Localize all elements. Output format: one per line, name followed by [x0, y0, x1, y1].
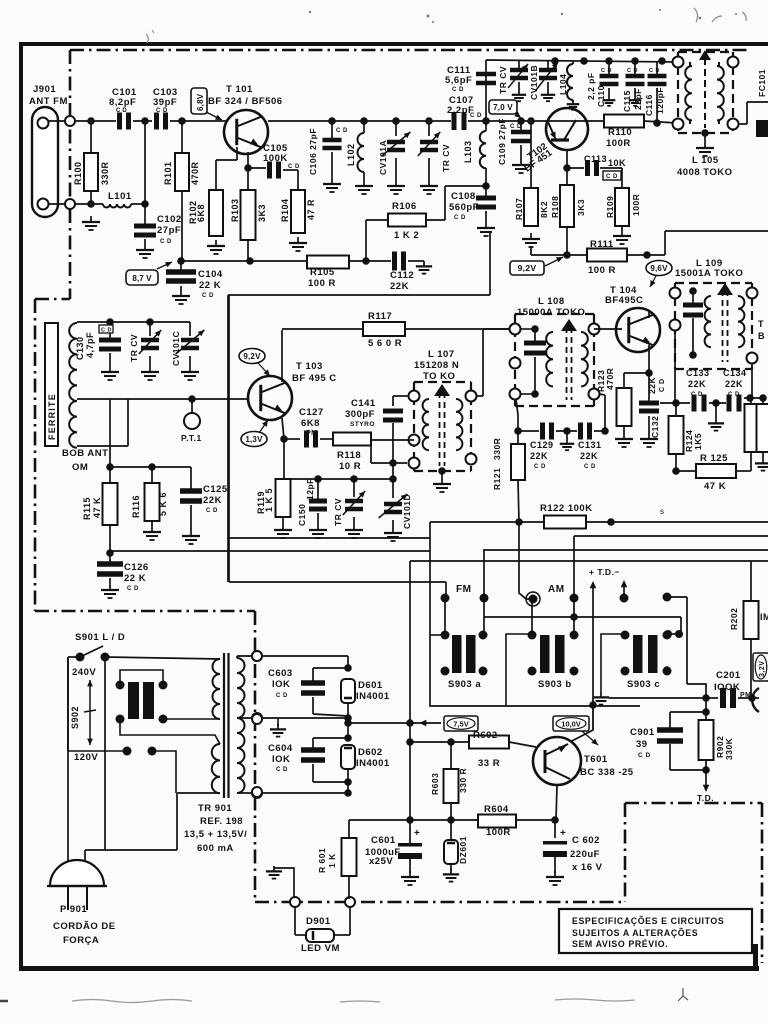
svg-text:DZ601: DZ601 — [458, 836, 468, 864]
svg-text:R 125: R 125 — [700, 453, 728, 464]
svg-text:220uF: 220uF — [570, 849, 600, 860]
svg-text:R115: R115 — [82, 497, 92, 520]
svg-text:9,2V: 9,2V — [518, 263, 537, 273]
svg-text:T: T — [758, 319, 764, 329]
svg-text:10,0V: 10,0V — [561, 720, 581, 729]
svg-text:C D: C D — [638, 752, 651, 759]
svg-text:100R: 100R — [486, 827, 511, 838]
svg-text:C106 27pF: C106 27pF — [308, 128, 318, 175]
svg-text:100R: 100R — [606, 138, 631, 149]
svg-text:C603: C603 — [268, 668, 293, 679]
svg-text:S903 a: S903 a — [448, 679, 481, 690]
svg-text:PM: PM — [740, 692, 752, 699]
svg-text:C150: C150 — [297, 504, 307, 526]
svg-text:s: s — [660, 507, 664, 516]
svg-text:C D: C D — [101, 328, 112, 334]
svg-text:C141: C141 — [351, 398, 376, 409]
svg-text:600 mA: 600 mA — [197, 843, 234, 854]
svg-text:13,5 + 13,5V/: 13,5 + 13,5V/ — [184, 829, 247, 840]
svg-text:1 K 5: 1 K 5 — [264, 488, 274, 512]
svg-text:IN4001: IN4001 — [356, 691, 390, 702]
svg-text:C201: C201 — [716, 670, 741, 681]
svg-text:TR CV: TR CV — [333, 498, 343, 526]
svg-text:22K: 22K — [530, 451, 548, 461]
svg-text:PM: PM — [306, 430, 318, 437]
svg-text:IOK: IOK — [272, 754, 290, 765]
svg-text:C113: C113 — [584, 154, 607, 164]
svg-text:x 16 V: x 16 V — [572, 862, 603, 873]
svg-text:C D: C D — [160, 239, 172, 245]
svg-text:x25V: x25V — [369, 856, 393, 867]
svg-text:IOOK: IOOK — [714, 682, 740, 693]
svg-text:R109: R109 — [605, 196, 615, 218]
svg-text:C D: C D — [534, 464, 546, 470]
svg-text:CV101B: CV101B — [529, 65, 539, 100]
svg-text:240V: 240V — [72, 667, 96, 678]
svg-text:8,7 V: 8,7 V — [132, 274, 152, 283]
svg-text:39: 39 — [636, 739, 648, 750]
svg-text:D602: D602 — [358, 747, 383, 758]
svg-text:C126: C126 — [124, 562, 149, 573]
svg-text:5 K 6: 5 K 6 — [158, 492, 168, 516]
svg-text:D901: D901 — [306, 916, 331, 927]
svg-text:C112: C112 — [390, 270, 414, 281]
svg-text:ESPECIFICAÇÕES E CIRCUITOS: ESPECIFICAÇÕES E CIRCUITOS — [572, 916, 724, 926]
svg-text:10 R: 10 R — [339, 461, 361, 472]
svg-text:BF 324 / BF506: BF 324 / BF506 — [208, 96, 283, 107]
svg-text:C D: C D — [728, 392, 740, 398]
svg-text:C115: C115 — [622, 90, 632, 112]
svg-text:3K3: 3K3 — [576, 199, 586, 216]
svg-text:P.T.1: P.T.1 — [181, 433, 202, 443]
svg-text:C127: C127 — [299, 407, 324, 418]
svg-text:9,2V: 9,2V — [243, 352, 261, 361]
svg-text:L 108: L 108 — [538, 296, 565, 307]
svg-text:R110: R110 — [608, 127, 632, 138]
svg-text:300pF: 300pF — [345, 409, 375, 420]
svg-text:1 K 2: 1 K 2 — [394, 230, 419, 241]
svg-text:R117: R117 — [368, 311, 392, 322]
svg-text:R101: R101 — [163, 161, 173, 185]
svg-text:10K: 10K — [608, 158, 626, 168]
svg-text:AM: AM — [548, 584, 565, 595]
svg-text:S901 L / D: S901 L / D — [75, 632, 125, 643]
svg-text:C D: C D — [584, 464, 596, 470]
svg-text:C129: C129 — [530, 440, 554, 450]
svg-text:IN4001: IN4001 — [356, 758, 390, 769]
svg-text:4008 TOKO: 4008 TOKO — [677, 167, 733, 178]
svg-text:C D: C D — [202, 293, 214, 299]
svg-text:R100: R100 — [73, 161, 83, 185]
svg-text:R118: R118 — [337, 450, 361, 461]
svg-text:22K: 22K — [688, 379, 706, 389]
svg-text:LED VM: LED VM — [301, 943, 340, 954]
svg-text:151208 N: 151208 N — [414, 360, 459, 371]
svg-text:P 901: P 901 — [60, 904, 87, 915]
svg-text:FORÇA: FORÇA — [63, 935, 99, 946]
svg-text:R603: R603 — [430, 773, 440, 795]
svg-text:R108: R108 — [550, 196, 560, 218]
svg-text:470R: 470R — [190, 161, 200, 185]
svg-text:TR CV: TR CV — [498, 66, 508, 94]
svg-text:CV101D: CV101D — [402, 494, 412, 529]
svg-text:C132: C132 — [650, 416, 660, 438]
svg-text:C108: C108 — [451, 191, 476, 202]
svg-text:100R: 100R — [631, 194, 641, 216]
svg-text:C125: C125 — [203, 484, 228, 495]
svg-text:R105: R105 — [310, 267, 335, 278]
svg-text:22pF: 22pF — [633, 88, 643, 110]
svg-text:39pF: 39pF — [153, 97, 177, 108]
svg-text:1,3V: 1,3V — [245, 435, 263, 444]
svg-text:15000A TOKO: 15000A TOKO — [517, 307, 585, 318]
svg-text:22K: 22K — [580, 451, 598, 461]
svg-text:C D: C D — [691, 392, 703, 398]
svg-text:TR CV: TR CV — [129, 334, 139, 362]
svg-text:T 103: T 103 — [296, 361, 323, 372]
svg-text:R121: R121 — [492, 468, 502, 490]
svg-text:C D: C D — [606, 174, 618, 180]
svg-text:6K8: 6K8 — [301, 418, 320, 429]
svg-text:R116: R116 — [131, 495, 141, 518]
svg-text:L103: L103 — [463, 140, 473, 163]
svg-text:1 K: 1 K — [327, 853, 337, 868]
svg-text:L101: L101 — [108, 191, 132, 202]
svg-text:C D: C D — [127, 586, 139, 592]
svg-text:R104: R104 — [280, 198, 290, 222]
svg-text:L 107: L 107 — [428, 349, 455, 360]
svg-text:FM: FM — [456, 584, 471, 595]
svg-text:120pF: 120pF — [655, 87, 665, 114]
svg-text:8,2pF: 8,2pF — [109, 97, 136, 108]
svg-text:15001A TOKO: 15001A TOKO — [675, 268, 743, 279]
svg-text:7,5V: 7,5V — [453, 720, 468, 729]
svg-text:6K8: 6K8 — [196, 204, 206, 222]
svg-text:330 R: 330 R — [458, 768, 468, 793]
svg-text:47 K: 47 K — [704, 481, 726, 492]
svg-text:R107: R107 — [514, 198, 524, 220]
svg-text:B: B — [758, 331, 765, 341]
svg-text:OM: OM — [72, 462, 88, 473]
svg-text:L102: L102 — [346, 143, 356, 166]
svg-text:R122 100K: R122 100K — [540, 503, 593, 514]
svg-text:C D: C D — [454, 215, 466, 221]
svg-text:6,8V: 6,8V — [196, 93, 205, 111]
svg-text:SEM AVISO PRÉVIO.: SEM AVISO PRÉVIO. — [572, 939, 668, 949]
svg-text:R103: R103 — [230, 198, 240, 222]
svg-text:12pF: 12pF — [305, 478, 315, 500]
svg-text:C901: C901 — [630, 727, 655, 738]
svg-text:L 105: L 105 — [692, 155, 719, 166]
svg-text:C D: C D — [116, 108, 127, 114]
svg-text:C D: C D — [156, 108, 168, 114]
svg-text:BC 338 -25: BC 338 -25 — [580, 767, 634, 778]
svg-text:S903 c: S903 c — [627, 679, 660, 690]
svg-text:+: + — [414, 828, 420, 839]
svg-text:7,0 V: 7,0 V — [493, 103, 513, 112]
svg-text:T601: T601 — [584, 754, 608, 765]
svg-text:C134: C134 — [723, 368, 747, 378]
svg-text:C604: C604 — [268, 743, 293, 754]
svg-text:FERRITE: FERRITE — [47, 393, 57, 440]
svg-text:C116: C116 — [644, 94, 654, 116]
svg-text:22K: 22K — [647, 377, 657, 394]
svg-text:C D: C D — [659, 378, 666, 392]
svg-text:C104: C104 — [198, 269, 223, 280]
svg-text:CV101A: CV101A — [378, 140, 388, 175]
svg-text:TO KO: TO KO — [423, 371, 455, 382]
svg-text:22K: 22K — [390, 281, 409, 292]
svg-text:TR CV: TR CV — [441, 144, 451, 172]
svg-text:+: + — [560, 828, 566, 839]
svg-text:C102: C102 — [157, 214, 182, 225]
svg-text:330K: 330K — [724, 737, 734, 760]
svg-text:330R: 330R — [492, 438, 502, 460]
svg-text:100K: 100K — [263, 153, 288, 164]
svg-text:R202: R202 — [729, 608, 739, 630]
svg-text:47 K: 47 K — [92, 497, 102, 518]
svg-text:TR 901: TR 901 — [198, 803, 232, 814]
svg-text:D601: D601 — [358, 680, 383, 691]
svg-text:STYRO: STYRO — [350, 421, 375, 428]
svg-text:R111: R111 — [590, 239, 614, 250]
svg-text:8K2: 8K2 — [539, 201, 549, 218]
svg-text:REF. 198: REF. 198 — [200, 816, 243, 827]
svg-text:C601: C601 — [371, 835, 396, 846]
svg-text:IOK: IOK — [272, 679, 290, 690]
svg-text:5 6 0 R: 5 6 0 R — [368, 338, 402, 349]
svg-text:470R: 470R — [605, 368, 615, 390]
svg-text:3,2V: 3,2V — [759, 661, 766, 677]
svg-text:33 R: 33 R — [478, 758, 500, 769]
svg-text:ANT FM: ANT FM — [29, 96, 68, 107]
svg-text:47 R: 47 R — [306, 199, 316, 220]
svg-text:+ T.D.−: + T.D.− — [589, 567, 620, 577]
svg-text:C130: C130 — [75, 336, 85, 360]
svg-text:CORDÃO DE: CORDÃO DE — [53, 921, 116, 932]
svg-text:T 101: T 101 — [226, 84, 253, 95]
svg-text:BF495C: BF495C — [605, 295, 643, 306]
svg-text:1K5: 1K5 — [693, 433, 703, 450]
svg-text:R604: R604 — [484, 804, 509, 815]
svg-text:C D: C D — [649, 68, 660, 74]
svg-text:IM: IM — [760, 612, 768, 622]
svg-text:C D: C D — [276, 693, 288, 699]
svg-text:3K3: 3K3 — [257, 204, 267, 222]
svg-text:R602: R602 — [473, 730, 498, 741]
svg-text:C D: C D — [276, 767, 288, 773]
svg-text:SUJEITOS A ALTERAÇÕES: SUJEITOS A ALTERAÇÕES — [572, 928, 698, 938]
svg-text:4,7pF: 4,7pF — [85, 332, 95, 358]
svg-text:R 601: R 601 — [317, 848, 327, 873]
svg-text:BF 495 C: BF 495 C — [292, 373, 337, 384]
svg-text:S902: S902 — [70, 706, 80, 729]
svg-text:C110: C110 — [596, 85, 606, 107]
svg-text:C D: C D — [470, 113, 482, 119]
svg-text:T.D.: T.D. — [697, 793, 714, 803]
svg-text:C D: C D — [601, 68, 612, 74]
svg-text:22 K: 22 K — [124, 573, 146, 584]
svg-text:C D: C D — [627, 68, 638, 74]
svg-text:C109 27pF: C109 27pF — [497, 118, 507, 165]
svg-text:L104: L104 — [558, 74, 568, 95]
svg-text:C 602: C 602 — [572, 835, 600, 846]
svg-text:22K: 22K — [725, 379, 743, 389]
svg-text:J901: J901 — [33, 84, 56, 95]
svg-text:9,6V: 9,6V — [650, 264, 668, 273]
svg-text:S903 b: S903 b — [538, 679, 572, 690]
svg-text:R106: R106 — [392, 201, 417, 212]
svg-text:C D: C D — [336, 128, 348, 134]
svg-text:C D: C D — [510, 124, 522, 130]
svg-text:5,6pF: 5,6pF — [445, 75, 472, 86]
svg-text:27pF: 27pF — [157, 225, 181, 236]
svg-text:C133: C133 — [686, 368, 710, 378]
svg-text:22 K: 22 K — [199, 280, 221, 291]
svg-text:BOB ANT: BOB ANT — [62, 448, 108, 459]
svg-text:22K: 22K — [203, 495, 222, 506]
svg-text:120V: 120V — [74, 752, 98, 763]
svg-text:560pF: 560pF — [449, 202, 479, 213]
svg-text:C D: C D — [452, 87, 464, 93]
svg-text:330R: 330R — [100, 161, 110, 185]
svg-text:C D: C D — [206, 508, 218, 514]
svg-text:C131: C131 — [578, 440, 602, 450]
svg-text:100 R: 100 R — [308, 278, 336, 289]
svg-text:C D: C D — [288, 164, 300, 170]
svg-text:2,2 pF: 2,2 pF — [586, 72, 596, 100]
svg-text:100 R: 100 R — [588, 265, 616, 276]
svg-text:FC101: FC101 — [757, 69, 767, 97]
svg-text:CV101C: CV101C — [171, 331, 181, 366]
